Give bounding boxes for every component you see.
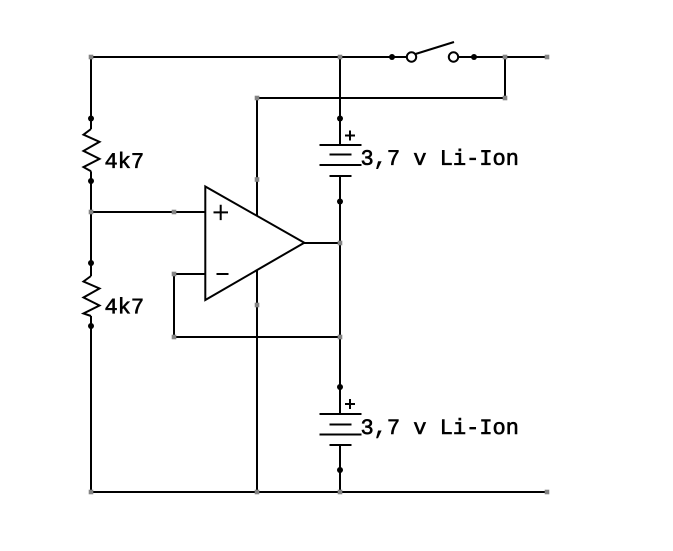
label R2 value 4k7 (106, 297, 143, 313)
node handle: feedback / right rail junction (338, 335, 343, 340)
junction dot: R1 top (88, 116, 94, 122)
wire: feedback vertical (173, 274, 175, 337)
wire: top rail left segment (91, 56, 407, 58)
junction dot: R2 bottom (88, 323, 94, 329)
node handle: top-left corner (89, 55, 94, 60)
junction dot: switch right (471, 54, 477, 60)
node handle: left rail / +input junction (89, 210, 94, 215)
wire: right rail top (339, 57, 341, 145)
node handle: top rail right end (545, 55, 550, 60)
wire: left rail upper (90, 57, 92, 129)
node handle: top rail / right stub junction (503, 55, 508, 60)
wire: left rail middle (90, 171, 92, 276)
label B2 value 3,7 v Li-Ion (362, 418, 517, 438)
junction dot: B2 top (337, 384, 343, 390)
wire: right rail bottom (339, 445, 341, 492)
node handle: bottom-left corner (89, 490, 94, 495)
node handle: bottom rail / mid vertical junction (255, 490, 260, 495)
node handle: feedback corner (172, 335, 177, 340)
wire: output (303, 242, 340, 244)
resistor R2 4k7 (lower) (84, 276, 100, 316)
node handle: +input mid (172, 210, 177, 215)
node handle: bottom rail / right rail junction (338, 490, 343, 495)
junction dot: B1 top (337, 116, 343, 122)
battery B1 (upper) (320, 131, 362, 177)
node handle: inverting input corner (172, 272, 177, 277)
wire: right rail middle (339, 176, 341, 414)
node handle: output / right rail junction (338, 241, 343, 246)
node handle: mid horizontal left end (255, 96, 260, 101)
node handle: mid horizontal right end (503, 96, 508, 101)
junction dot: R1 bottom (88, 178, 94, 184)
wire: inverting input (174, 273, 207, 275)
wire: left rail lower (90, 316, 92, 492)
label B1 value 3,7 v Li-Ion (362, 149, 517, 169)
wire: mid horizontal (257, 97, 505, 99)
node handle: top rail / right rail junction (338, 55, 343, 60)
battery B2 (lower) (320, 399, 362, 445)
wire: non-inverting input (91, 211, 207, 213)
junction dot: B1 bottom (337, 199, 343, 205)
wire: bottom rail (91, 491, 547, 493)
wire: top rail right segment (458, 56, 547, 58)
junction dot: B2 bottom (337, 467, 343, 473)
node handle: mid vertical upper (255, 177, 260, 182)
switch S1 (407, 42, 458, 62)
junction dot: R2 top (88, 260, 94, 266)
resistor R1 4k7 (upper) (84, 129, 100, 171)
wire: feedback horizontal (174, 336, 340, 338)
label R1 value 4k7 (106, 152, 143, 168)
node handle: bottom rail right end (545, 490, 550, 495)
node handle: mid vertical lower (255, 303, 260, 308)
op-amp U1 (205, 187, 304, 301)
wire: right stub vertical (504, 57, 506, 98)
wire: mid vertical (256, 98, 258, 492)
junction dot: switch left (389, 54, 395, 60)
